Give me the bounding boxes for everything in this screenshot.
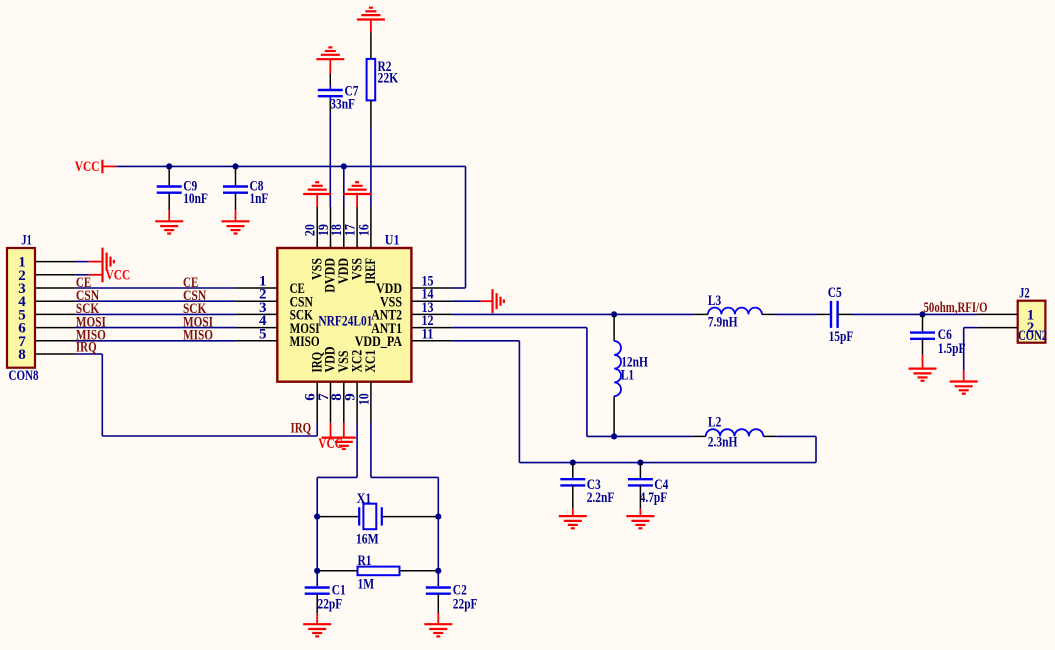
capacitor C3: [572, 463, 574, 478]
ground (C7 top): [316, 58, 344, 60]
svg-text:50ohm,RFI/O: 50ohm,RFI/O: [924, 300, 988, 316]
wire net CSN: [35, 300, 76, 302]
capacitor C6: [922, 314, 924, 331]
connector J1: [7, 248, 35, 368]
svg-text:VCC: VCC: [318, 436, 343, 452]
capacitor C2: [426, 586, 451, 588]
svg-text:IRQ: IRQ: [76, 340, 97, 356]
wire VCC rail: [116, 165, 465, 167]
capacitor C7: [329, 85, 331, 90]
U1 right pin stubs: [411, 287, 452, 289]
wire net SCK: [35, 313, 76, 315]
svg-text:VCC: VCC: [106, 267, 131, 283]
ground (C1): [303, 623, 331, 625]
U1 bottom pin stubs: [316, 382, 318, 423]
svg-text:L3: L3: [708, 293, 721, 309]
svg-text:U1: U1: [385, 232, 400, 248]
svg-text:VCC: VCC: [75, 159, 100, 175]
svg-text:22pF: 22pF: [318, 597, 343, 613]
svg-text:L1: L1: [621, 368, 634, 384]
U1 top pin stubs: [316, 207, 318, 248]
svg-text:MISO: MISO: [290, 334, 320, 350]
svg-text:IRQ: IRQ: [291, 421, 312, 437]
svg-text:L2: L2: [708, 415, 721, 431]
svg-text:8: 8: [18, 347, 26, 363]
resistor R2: [367, 59, 376, 101]
svg-text:X1: X1: [357, 491, 372, 507]
wire C6 to ground: [922, 339, 924, 355]
svg-text:11: 11: [422, 326, 434, 342]
capacitor C4: [639, 463, 641, 478]
node L1 bottom: [611, 433, 617, 439]
wire right crystal rail: [437, 477, 439, 586]
svg-text:2.2nF: 2.2nF: [587, 490, 615, 506]
wire left crystal rail: [316, 477, 318, 586]
wire R2 top: [370, 20, 372, 33]
power port VCC (U1 pin 7) and ground (pin 8): [330, 423, 332, 438]
svg-text:15pF: 15pF: [829, 329, 854, 345]
svg-text:22pF: 22pF: [453, 597, 478, 613]
wire L2 to lower node: [776, 435, 816, 437]
wire ANT1 (pin 12): [452, 327, 587, 329]
capacitor C5: [830, 301, 832, 328]
ground (U1 pin 14, rotated): [452, 300, 480, 302]
ground (R2 top): [357, 18, 385, 20]
wire C7 top: [329, 59, 331, 73]
wire VCC to pin 15: [465, 166, 467, 288]
node VCC/C8: [232, 163, 238, 169]
node C6/J2: [919, 311, 925, 317]
node R1 left: [314, 568, 320, 574]
svg-text:R1: R1: [358, 553, 372, 569]
inductor L1: [613, 314, 615, 341]
node C4: [637, 460, 643, 466]
svg-text:16M: 16M: [356, 532, 379, 548]
wire XC2 (pin 9) down: [356, 423, 358, 478]
svg-text:5: 5: [259, 326, 267, 342]
ground (C6): [909, 368, 937, 370]
wire pin 18 to VCC rail: [343, 166, 345, 207]
svg-text:XC1: XC1: [363, 350, 379, 373]
ground (C2): [424, 623, 452, 625]
wire VDD_PA (pin 11): [452, 340, 519, 342]
svg-text:10nF: 10nF: [183, 191, 208, 207]
power port VCC / ground (J1 pins 1,2): [89, 261, 103, 263]
svg-text:J1: J1: [21, 232, 32, 248]
capacitor C9: [168, 166, 170, 186]
svg-text:1nF: 1nF: [250, 191, 269, 207]
svg-text:33nF: 33nF: [330, 96, 355, 112]
resistor R1: [318, 570, 358, 572]
node X1 right: [435, 514, 441, 520]
svg-text:NRF24L01: NRF24L01: [318, 313, 372, 329]
svg-text:C5: C5: [828, 285, 842, 301]
svg-text:22K: 22K: [378, 70, 399, 86]
svg-text:CON8: CON8: [9, 368, 39, 384]
connector J2: [1018, 301, 1046, 343]
svg-text:4.7pF: 4.7pF: [640, 490, 668, 506]
pin J2-1: [977, 313, 1018, 315]
wire net MOSI: [35, 327, 76, 329]
ground (U1 pin 17): [356, 194, 358, 207]
wire net MISO: [35, 340, 76, 342]
svg-text:1M: 1M: [358, 577, 375, 593]
wire ANT2 (pin 13) to L3: [452, 313, 694, 315]
node X1 left: [314, 514, 320, 520]
wire C2 to ground: [437, 594, 439, 613]
wire net CE: [35, 287, 76, 289]
crystal X1: [318, 516, 359, 518]
pin J1-1: [35, 261, 76, 263]
capacitor C8: [235, 166, 237, 186]
node VCC/pin18: [341, 163, 347, 169]
ground (J2 pin 2): [950, 380, 978, 382]
svg-text:16: 16: [356, 224, 372, 236]
inductor L2: [693, 435, 706, 437]
node VCC/C9: [166, 163, 172, 169]
wire C4 to ground: [639, 485, 641, 508]
IC U1 NRF24L01: [277, 248, 411, 382]
svg-text:VDD_PA: VDD_PA: [355, 334, 402, 350]
svg-text:2.3nH: 2.3nH: [708, 435, 738, 451]
capacitor C1: [305, 586, 330, 588]
wire C3 to ground: [572, 485, 574, 508]
pin J2-2 to ground: [977, 327, 1018, 329]
wire C9 to ground: [168, 193, 170, 211]
svg-text:MISO: MISO: [183, 328, 213, 344]
ground (C4): [626, 515, 654, 517]
wire net IRQ (J1 pin 8): [35, 353, 76, 355]
inductor L3: [694, 313, 708, 315]
wire C8 to ground: [235, 193, 237, 211]
wire XC1 (pin 10) down: [370, 423, 372, 478]
ground (U1 pin 20): [316, 194, 318, 207]
wire C1 to ground: [316, 594, 318, 613]
ground (C9): [155, 220, 183, 222]
pin J1-2: [35, 274, 76, 276]
svg-text:7.9nH: 7.9nH: [708, 314, 738, 330]
U1 left pin stubs: [236, 287, 277, 289]
ground (C3): [559, 515, 587, 517]
wire C5 to J2: [838, 313, 852, 315]
svg-text:1.5pF: 1.5pF: [938, 341, 966, 357]
wire R2 to pin 16: [370, 100, 372, 127]
ground (C8): [222, 220, 250, 222]
svg-text:J2: J2: [1019, 286, 1030, 302]
wire L3 to C5: [776, 313, 818, 315]
wire C7 to pin 19: [329, 101, 331, 112]
node C3: [570, 460, 576, 466]
svg-text:CON2: CON2: [1018, 328, 1047, 344]
svg-text:IREF: IREF: [363, 258, 379, 284]
node R1 right: [435, 568, 441, 574]
node L1 top: [611, 311, 617, 317]
svg-text:10: 10: [356, 393, 372, 405]
